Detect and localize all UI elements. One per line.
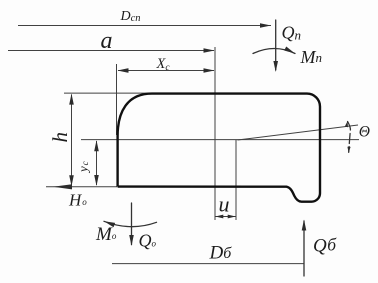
svg-text:Dб: Dб <box>209 243 233 264</box>
svg-text:h: h <box>48 132 72 143</box>
svg-text:Mп: Mп <box>300 47 323 67</box>
svg-text:u: u <box>219 192 230 217</box>
svg-text:Qб: Qб <box>313 235 337 257</box>
svg-text:a: a <box>101 28 113 54</box>
svg-text:Θ: Θ <box>359 124 370 141</box>
